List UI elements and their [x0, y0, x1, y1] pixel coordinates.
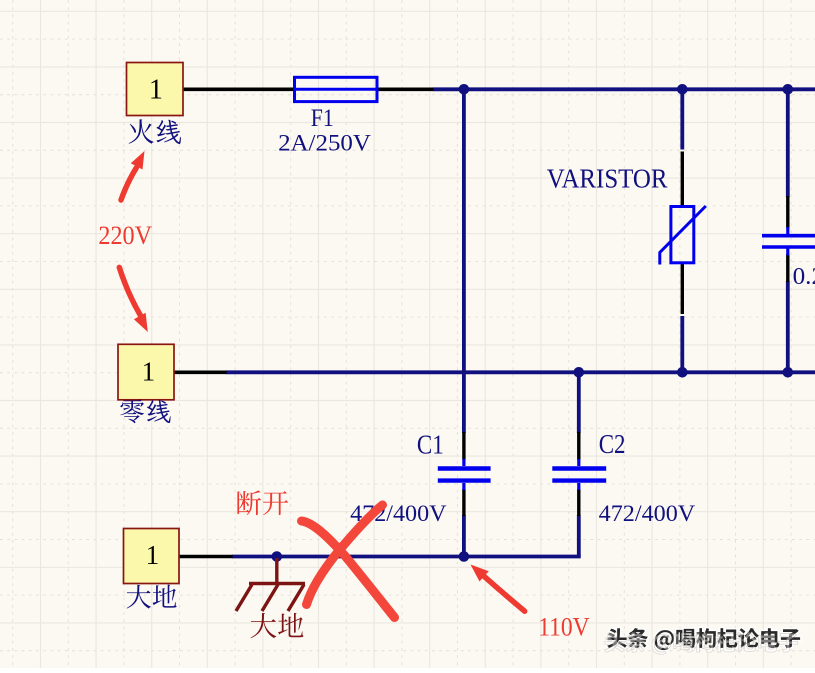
wire: earth line [232, 555, 581, 559]
svg-text:C1: C1 [417, 430, 444, 460]
svg-text:1: 1 [142, 357, 156, 387]
label 火线 (live) [129, 119, 181, 144]
junction [783, 367, 794, 378]
capacitor C2 [552, 459, 606, 490]
junction [783, 84, 794, 95]
svg-text:F1: F1 [311, 105, 334, 132]
connector pin 1 (live) [127, 63, 184, 116]
wire: C2 branch vertical (neutral to earth) [577, 372, 581, 556]
junction [272, 551, 283, 562]
wire: fuse right lead (black) [377, 88, 434, 92]
wire: live rail (top, after fuse) [433, 87, 815, 91]
junction [459, 84, 470, 95]
fuse F1 [295, 77, 378, 101]
annotation arrow (220V to neutral) [119, 267, 148, 332]
wire: varistor branch stubs [680, 89, 684, 372]
C2 leads (black) [577, 432, 580, 516]
label 大地 (earth connector) [127, 585, 177, 609]
varistor RV (VARISTOR) [660, 206, 706, 265]
svg-text:110V: 110V [538, 613, 590, 642]
X-capacitor CX (0.22) [762, 227, 815, 256]
connector pin 1 (neutral) [118, 344, 174, 400]
connector pin 1 (earth) [124, 529, 180, 584]
annotation arrow (220V to live) [121, 151, 145, 200]
svg-text:472/400V: 472/400V [599, 501, 696, 526]
junction [677, 84, 688, 95]
svg-text:VARISTOR: VARISTOR [547, 164, 668, 194]
annotation 断开 (disconnected) [237, 490, 288, 515]
svg-text:220V: 220V [98, 221, 152, 250]
annotation arrow (110V to earth junction) [471, 565, 525, 612]
ground (earth symbol) [236, 558, 305, 611]
annotation X (broken earth) [302, 505, 395, 618]
capacitor C1 [438, 459, 491, 490]
wire: neutral rail [226, 370, 815, 374]
junction [459, 551, 470, 562]
svg-text:1: 1 [149, 75, 163, 106]
wire: X-capacitor branch vertical [786, 89, 790, 372]
X-capacitor leads (black) [786, 196, 789, 282]
wire: earth connector lead (black) [179, 555, 233, 559]
svg-text:0.22: 0.22 [793, 264, 815, 290]
svg-text:C2: C2 [599, 429, 626, 459]
junction [677, 367, 688, 378]
wire: neutral connector lead (black) [174, 370, 227, 374]
wire: live connector lead (black) [183, 88, 295, 92]
label 大地 (ground symbol) [251, 613, 304, 638]
junction [574, 367, 585, 378]
wire: C1 branch vertical (live to earth) [462, 89, 466, 556]
svg-text:1: 1 [146, 540, 160, 570]
varistor leads (black) [681, 152, 684, 315]
label 零线 (neutral) [120, 399, 170, 423]
C1 leads (black) [462, 432, 465, 516]
svg-text:2A/250V: 2A/250V [278, 131, 371, 156]
